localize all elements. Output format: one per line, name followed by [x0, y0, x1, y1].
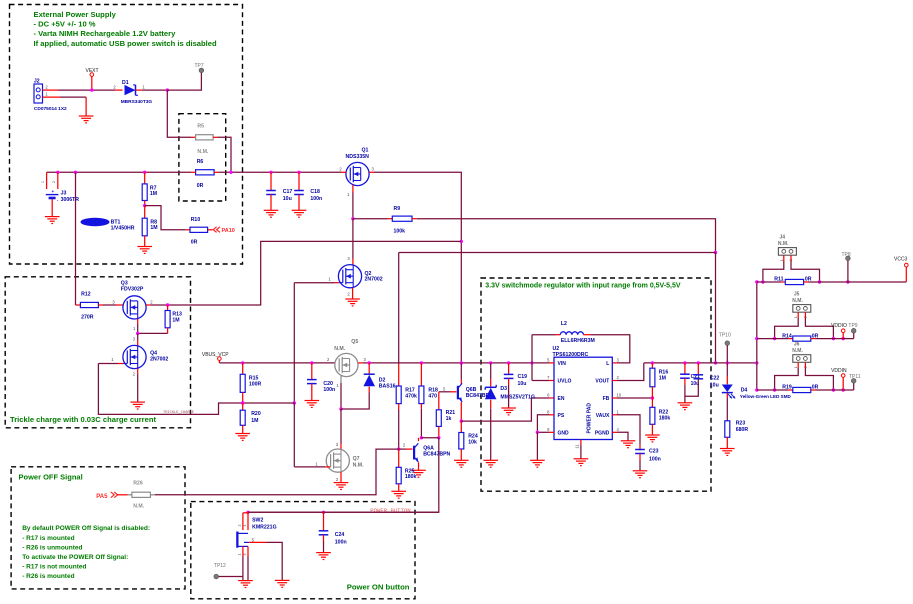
svg-text:PS: PS [558, 413, 565, 419]
svg-text:180k: 180k [659, 415, 671, 421]
svg-text:3006TR: 3006TR [61, 197, 80, 203]
svg-text:J3: J3 [61, 191, 67, 197]
svg-text:D4: D4 [741, 388, 748, 394]
svg-text:VAUX: VAUX [596, 413, 610, 419]
svg-text:- R17 is not mounted: - R17 is not mounted [22, 564, 86, 571]
svg-text:2: 2 [52, 181, 56, 183]
svg-text:J6: J6 [794, 342, 800, 348]
svg-text:10u: 10u [518, 381, 527, 387]
svg-text:470k: 470k [405, 393, 417, 399]
svg-text:SW2: SW2 [252, 517, 263, 523]
svg-text:0R: 0R [191, 240, 198, 246]
svg-text:100n: 100n [335, 539, 347, 545]
svg-text:N.M.: N.M. [133, 504, 145, 510]
svg-text:100R: 100R [249, 381, 262, 387]
svg-text:- R26 is unmounted: - R26 is unmounted [22, 544, 82, 551]
svg-text:11: 11 [575, 444, 580, 449]
svg-text:N.M.: N.M. [778, 241, 789, 247]
svg-text:R19: R19 [782, 385, 792, 391]
svg-text:R5: R5 [197, 123, 204, 129]
svg-text:FDV302P: FDV302P [121, 286, 144, 292]
svg-text:10u: 10u [283, 196, 292, 202]
svg-text:D3: D3 [500, 386, 507, 392]
svg-text:UVLO: UVLO [558, 379, 572, 385]
svg-text:R6: R6 [197, 159, 204, 165]
svg-text:- R26 is mounted: - R26 is mounted [22, 573, 74, 580]
svg-text:Power OFF Signal: Power OFF Signal [19, 472, 83, 481]
svg-text:VOUT: VOUT [595, 379, 609, 385]
svg-text:J2: J2 [34, 78, 40, 84]
svg-text:MBRS340T3G: MBRS340T3G [121, 99, 153, 105]
svg-text:10: 10 [617, 393, 622, 398]
svg-text:L: L [606, 361, 609, 367]
svg-text:External Power Supply: External Power Supply [34, 10, 117, 19]
svg-text:Trickle charge with 0.03C char: Trickle charge with 0.03C charge current [10, 415, 156, 424]
svg-text:To activate the POWER Off Sign: To activate the POWER Off Signal: [22, 554, 128, 561]
svg-text:TP11: TP11 [849, 374, 861, 380]
svg-text:VDDIN: VDDIN [831, 368, 847, 374]
svg-text:POWER PAD: POWER PAD [587, 403, 593, 434]
svg-text:N.M.: N.M. [197, 149, 209, 155]
svg-text:If applied, automatic USB powe: If applied, automatic USB power switch i… [34, 39, 217, 48]
svg-text:L2: L2 [561, 321, 567, 327]
svg-text:10k: 10k [468, 439, 477, 445]
svg-text:VEXT: VEXT [86, 68, 99, 74]
svg-text:R20: R20 [251, 411, 261, 417]
svg-text:KMR221G: KMR221G [252, 525, 277, 531]
svg-text:1: 1 [238, 554, 242, 556]
svg-text:Yellow-Green LED SMD: Yellow-Green LED SMD [740, 394, 792, 399]
svg-text:By default POWER Off Signal is: By default POWER Off Signal is disabled: [22, 525, 150, 532]
svg-text:1: 1 [41, 181, 45, 183]
svg-text:CD075014 1X2: CD075014 1X2 [34, 106, 67, 112]
svg-text:680R: 680R [736, 427, 749, 433]
svg-text:R9: R9 [394, 206, 401, 212]
svg-text:270R: 270R [81, 315, 94, 321]
svg-text:C17: C17 [283, 189, 293, 195]
svg-text:TP12: TP12 [214, 563, 226, 569]
svg-text:1M: 1M [150, 225, 157, 231]
svg-text:1M: 1M [172, 317, 179, 323]
svg-text:- R17 is mounted: - R17 is mounted [22, 535, 74, 542]
svg-text:R26: R26 [133, 481, 143, 487]
svg-text:R23: R23 [736, 421, 746, 427]
svg-text:1k: 1k [446, 416, 452, 422]
svg-text:EN: EN [558, 396, 565, 402]
svg-text:BT1: BT1 [111, 219, 121, 225]
svg-text:2N7002: 2N7002 [365, 277, 383, 283]
svg-text:N.M.: N.M. [792, 348, 803, 354]
svg-text:C23: C23 [649, 449, 659, 455]
svg-text:D1: D1 [122, 80, 129, 86]
svg-text:- DC +5V +/- 10 %: - DC +5V +/- 10 % [34, 20, 96, 29]
svg-text:PA5: PA5 [96, 494, 108, 500]
svg-text:1M: 1M [251, 418, 258, 424]
svg-text:N.M.: N.M. [353, 463, 365, 469]
svg-text:TP9: TP9 [848, 323, 857, 329]
svg-text:1M: 1M [659, 375, 666, 381]
svg-text:+: + [51, 189, 54, 194]
svg-text:Q1: Q1 [362, 147, 369, 153]
svg-text:3: 3 [243, 554, 247, 556]
svg-text:NDS335N: NDS335N [346, 154, 370, 160]
svg-text:BC847BPN: BC847BPN [423, 451, 450, 457]
svg-text:100n: 100n [649, 457, 661, 463]
svg-text:Q5: Q5 [351, 339, 358, 345]
svg-text:1/V450HR: 1/V450HR [111, 226, 135, 232]
svg-text:0R: 0R [812, 385, 819, 391]
svg-text:MMSZ5V2T1G: MMSZ5V2T1G [500, 395, 535, 401]
svg-text:VCC3: VCC3 [894, 257, 908, 263]
svg-text:TP10: TP10 [719, 333, 731, 339]
svg-text:470: 470 [428, 393, 437, 399]
svg-text:0R: 0R [197, 183, 204, 189]
svg-text:FB: FB [603, 396, 610, 402]
svg-text:100n: 100n [323, 387, 335, 393]
svg-text:2N7002: 2N7002 [150, 356, 168, 362]
svg-text:C22: C22 [710, 376, 720, 382]
svg-text:TP8: TP8 [842, 252, 851, 258]
svg-text:GND: GND [558, 430, 570, 436]
svg-text:R14: R14 [782, 333, 792, 339]
svg-text:VBUS_VCP: VBUS_VCP [202, 352, 229, 358]
svg-text:R11: R11 [774, 277, 783, 283]
svg-text:R12: R12 [81, 292, 91, 298]
svg-text:C24: C24 [335, 532, 345, 538]
svg-text:3.3V switchmode regulator with: 3.3V switchmode regulator with input ran… [485, 283, 681, 290]
svg-text:100n: 100n [310, 196, 322, 202]
svg-text:2: 2 [238, 525, 242, 527]
svg-text:VDDIO: VDDIO [831, 323, 847, 329]
svg-text:1M: 1M [150, 191, 157, 197]
svg-text:10u: 10u [710, 383, 719, 389]
svg-text:TP7: TP7 [195, 63, 204, 69]
svg-text:TPS61200DRC: TPS61200DRC [553, 352, 589, 358]
svg-text:N.M.: N.M. [792, 298, 803, 304]
svg-text:C18: C18 [310, 189, 320, 195]
svg-text:PGND: PGND [595, 430, 610, 436]
svg-text:- Varta NIMH Rechargeable 1.2V: - Varta NIMH Rechargeable 1.2V battery [34, 29, 177, 38]
svg-text:4: 4 [243, 525, 247, 527]
svg-text:PA10: PA10 [222, 228, 235, 234]
svg-text:N.M.: N.M. [334, 346, 346, 352]
svg-text:R10: R10 [191, 217, 201, 223]
svg-text:0R: 0R [812, 333, 819, 339]
svg-text:180k: 180k [405, 474, 417, 480]
svg-text:VIN: VIN [558, 361, 567, 367]
svg-text:TRICKLE_CHARGE: TRICKLE_CHARGE [163, 411, 195, 415]
svg-text:C19: C19 [518, 374, 528, 380]
svg-text:0R: 0R [805, 277, 812, 283]
svg-text:J4: J4 [780, 234, 786, 240]
svg-text:Q7: Q7 [353, 456, 360, 462]
svg-text:100k: 100k [394, 229, 406, 235]
svg-text:Power ON button: Power ON button [347, 582, 410, 591]
svg-text:BAS16: BAS16 [379, 383, 396, 389]
svg-text:J5: J5 [794, 291, 800, 297]
svg-text:ELL6RH6R3M: ELL6RH6R3M [561, 338, 595, 344]
